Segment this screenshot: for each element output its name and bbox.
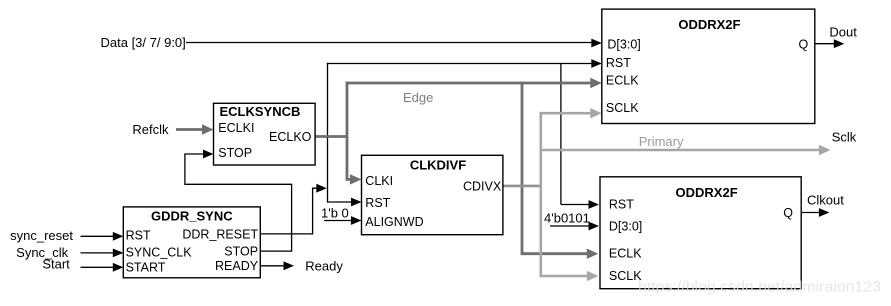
svg-text:START: START: [126, 261, 166, 275]
svg-text:SCLK: SCLK: [606, 101, 639, 115]
wire RST net to CLKDIVF RST: [327, 198, 362, 207]
svg-text:Primary: Primary: [639, 134, 684, 149]
svg-text:CLKDIVF: CLKDIVF: [410, 158, 466, 173]
wire Start input: [81, 263, 124, 272]
svg-text:4'b0101: 4'b0101: [544, 210, 590, 225]
svg-text:ECLKO: ECLKO: [269, 130, 312, 144]
wire Q output to Clkout: [801, 208, 829, 217]
svg-text:RST: RST: [609, 197, 634, 211]
wire Data bus to ODDRX2F#1 D[3:0]: [186, 39, 602, 48]
svg-text:ECLKI: ECLKI: [218, 121, 254, 135]
wire Edge net into CLKDIVF CLKI (dark gray): [346, 174, 362, 184]
svg-text:ECLK: ECLK: [606, 74, 639, 88]
svg-text:ALIGNWD: ALIGNWD: [365, 215, 423, 229]
wire Primary net vertical at x=540.5 (light gray): [539, 112, 542, 276]
svg-text:Edge: Edge: [403, 90, 433, 105]
wire sync_reset input: [81, 232, 124, 241]
svg-text:STOP: STOP: [224, 245, 258, 259]
svg-text:GDDR_SYNC: GDDR_SYNC: [151, 209, 233, 224]
wire STOP from GDDR_SYNC to ECLKSYNCB STOP: [185, 150, 292, 252]
wire Refclk arrow into ECLKI (dark gray): [176, 124, 214, 134]
svg-text:Clkout: Clkout: [807, 193, 844, 208]
wire Q output to Dout: [815, 39, 845, 48]
svg-text:SYNC_CLK: SYNC_CLK: [126, 246, 193, 260]
wire Sync_clk input: [81, 249, 124, 258]
wire Primary net to ODDRX2F#2 SCLK (light gray): [540, 271, 599, 281]
wire Edge net vertical at x=522 (dark gray): [521, 82, 524, 254]
wire CDIVX output segment (medium gray): [503, 185, 542, 188]
svg-text:D[3:0]: D[3:0]: [607, 38, 640, 52]
svg-text:Dout: Dout: [829, 24, 857, 39]
svg-text:https://blog.csdn.net/admiraio: https://blog.csdn.net/admiraion123: [638, 279, 881, 296]
svg-text:1'b 0: 1'b 0: [321, 206, 349, 221]
block ODDRX2F top: [602, 9, 815, 123]
wire Edge net vertical at x=347 (dark gray): [346, 82, 349, 180]
block ECLKSYNCB: [214, 103, 316, 165]
svg-text:Refclk: Refclk: [132, 122, 169, 137]
svg-text:D[3:0]: D[3:0]: [609, 219, 642, 233]
wire READY output to Ready label: [260, 261, 294, 270]
wire Primary net horizontal to Sclk (light gray): [540, 145, 831, 155]
svg-text:ECLK: ECLK: [609, 246, 642, 260]
svg-text:STOP: STOP: [218, 146, 252, 160]
wire RST net branch to ODDRX2F#2 RST: [561, 64, 599, 209]
wire Edge net top horizontal to ODDRX2F#1 ECLK (dark gray): [346, 78, 602, 88]
wire Primary net to ODDRX2F#1 SCLK (light gray): [540, 108, 602, 118]
svg-text:DDR_RESET: DDR_RESET: [182, 228, 258, 242]
svg-text:RST: RST: [126, 229, 151, 243]
svg-text:CDIVX: CDIVX: [463, 180, 502, 194]
svg-text:ODDRX2F: ODDRX2F: [676, 185, 738, 200]
wire RST net vertical trunk: [327, 63, 329, 202]
wire DDR_RESET from GDDR_SYNC into RST trunk: [260, 184, 327, 234]
svg-text:ECLKSYNCB: ECLKSYNCB: [220, 104, 301, 119]
wire 4'b0101 constant to ODDRX2F#2 D[3:0]: [544, 210, 599, 230]
svg-text:RST: RST: [606, 56, 631, 70]
svg-text:Q: Q: [783, 206, 793, 220]
svg-text:Q: Q: [798, 37, 808, 51]
svg-text:Ready: Ready: [305, 258, 343, 273]
svg-text:RST: RST: [365, 196, 390, 210]
wire RST net to ODDRX2F#1 RST: [327, 59, 602, 68]
svg-text:Sclk: Sclk: [832, 130, 857, 145]
wire Edge net to ODDRX2F#2 ECLK (dark gray): [521, 249, 599, 259]
svg-text:CLKI: CLKI: [365, 174, 393, 188]
svg-text:Data [3/ 7/ 9:0]: Data [3/ 7/ 9:0]: [101, 35, 186, 50]
svg-text:Start: Start: [42, 257, 70, 272]
block CLKDIVF: [362, 155, 503, 234]
wire ECLKO output segment (dark gray): [315, 135, 348, 138]
svg-text:sync_reset: sync_reset: [10, 228, 73, 243]
block GDDR_SYNC: [123, 207, 260, 278]
svg-text:READY: READY: [215, 259, 259, 273]
svg-text:ODDRX2F: ODDRX2F: [678, 17, 740, 32]
block ODDRX2F bottom: [600, 177, 801, 289]
wire 1'b0 constant to ALIGNWD: [321, 206, 362, 225]
